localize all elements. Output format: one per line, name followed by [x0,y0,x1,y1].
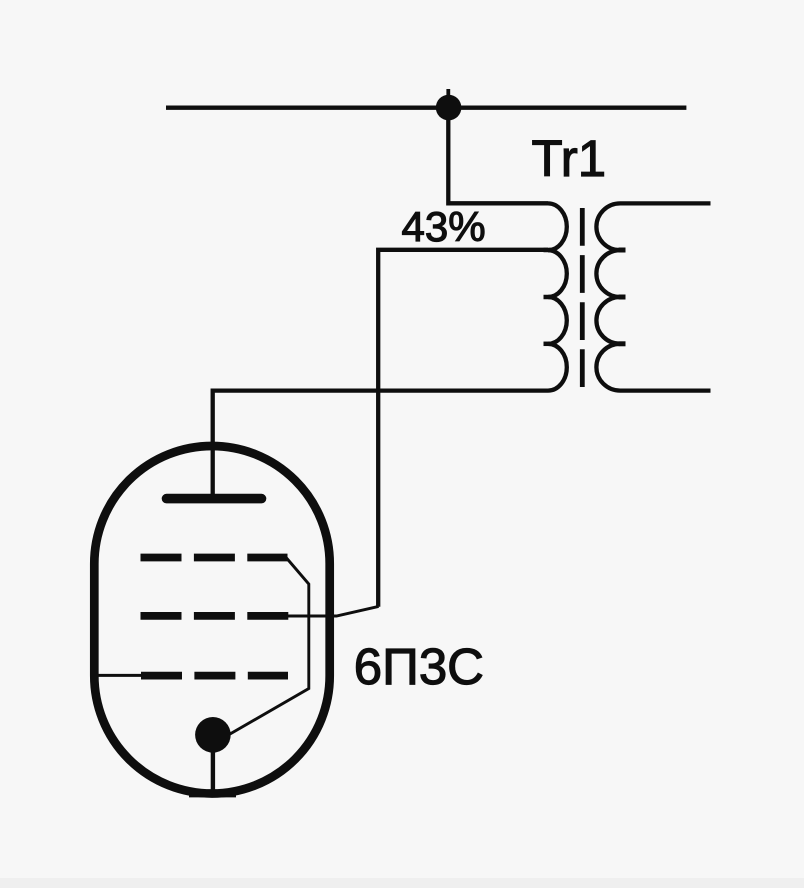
transformer Tr1 secondary winding (right) [596,203,710,390]
wire: thin link g3 to cathode [230,558,309,734]
wire: cathode lead down [211,740,215,792]
tube anode plate bar [167,494,262,504]
transformer core (dashed) [580,208,585,387]
cathode dot [195,717,231,753]
transformer Tr1 primary winding (left) [548,203,567,390]
wire: anode to primary bottom [213,391,548,499]
winding cusp ticks (secondary) [619,250,626,344]
wire: 43% tap from primary to screen-grid drop [378,250,548,607]
node: junction dot on rail [436,95,462,121]
wire: stub above junction dot [446,89,450,100]
envelope bottom flat chord at cathode lead [189,790,236,798]
wire: top supply rail [166,105,686,109]
tube grid g1 (bottom dashed row) [141,672,288,680]
wire: thin link from tap drop to screen grid g2 [287,606,379,616]
svg-text:Tr1: Tr1 [532,130,607,187]
wire: g1 stub to envelope [91,674,143,677]
tube grid g2 (middle dashed row) [141,612,289,620]
svg-text:43%: 43% [402,203,486,250]
svg-text:6П3С: 6П3С [354,638,484,695]
tube V1 envelope (6П3С) [94,446,329,794]
tube grid g3 (top dashed row) [141,554,288,562]
wire: drop from junction to primary top [448,105,548,203]
winding cusp ticks (primary) [544,250,551,344]
